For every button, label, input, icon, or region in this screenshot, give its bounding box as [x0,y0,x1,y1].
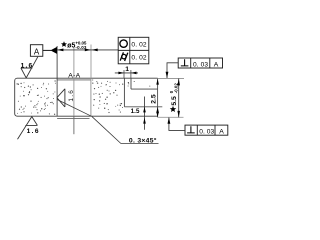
dim 1 line [115,72,138,74]
svg-text:A-A: A-A [68,73,80,80]
notch bottom edge [124,106,162,108]
svg-text:-0.03: -0.03 [75,45,86,50]
chamfer leader underline D3 [121,143,159,145]
fcf perpendicularity top right [178,58,222,68]
svg-text:1: 1 [125,66,129,73]
top edge extension to right (gray) [158,78,184,80]
fcf roundness/cylindricity frame [118,37,149,64]
roundness symbol [120,40,127,47]
svg-text:0. 3×45°: 0. 3×45° [129,136,157,144]
perpendicularity symbol [181,59,189,66]
chamfer leader D1 [57,99,91,116]
datum triangle (filled) [50,47,57,54]
hole right wall [90,78,92,116]
datum A frame [30,45,42,57]
fcf perpendicularity bottom right [185,125,228,135]
chamfer leader D2 [92,116,121,143]
part outline [15,78,158,116]
svg-text:1.5: 1.5 [131,108,140,115]
slot left wall V4 [123,78,125,107]
dim 1 extension lines [123,70,125,78]
svg-text:ø5: ø5 [67,43,75,50]
dim 1.5 line V7 [144,97,146,130]
svg-text:A: A [34,47,40,56]
dia5 dimension line [57,49,118,51]
hole top membrane line [57,79,91,81]
dim 2.5 line V6 arrows [156,79,159,85]
bottom edge extension to right (gray) [158,116,184,118]
svg-text:1.6: 1.6 [27,128,39,135]
svg-text:1.6: 1.6 [21,63,33,70]
cylindricity symbol [120,52,128,61]
fcf leader arrow [92,49,98,52]
fcf bottom right leader [169,118,185,131]
fcf top right leader [167,63,178,78]
slot right wall V5 [130,78,132,89]
svg-text:A: A [214,61,219,68]
section stipple dots [16,79,150,114]
extension line hole right (up, gray) [90,45,92,79]
svg-text:5.5: 5.5 [171,96,178,106]
centerline lower segment [73,116,75,134]
svg-text:0. 03: 0. 03 [199,129,214,136]
part right edge V6 [157,78,159,117]
dim 1 arrows [118,72,124,75]
roughness symbol top left [21,57,38,78]
roughness symbol bottom left [18,117,38,140]
svg-text:A: A [219,129,224,136]
svg-text:0. 02: 0. 02 [131,55,147,62]
dia5 left arrow [57,49,63,52]
datum leader [43,49,51,51]
dim 5.5 line V9 [178,79,180,118]
dim 5.5 text (rotated) with star [169,83,179,112]
dia5 dimension text [61,41,87,50]
svg-text:1.6: 1.6 [68,90,75,102]
hole bottom membrane line [57,118,89,120]
extension line hole left (up) [56,46,58,78]
svg-text:0. 03: 0. 03 [193,61,208,68]
svg-text:0. 02: 0. 02 [131,41,147,48]
notch top edge [131,88,158,90]
svg-text:-0.02: -0.02 [174,83,179,94]
svg-text:2.5: 2.5 [150,94,157,104]
dia5 right arrow [85,49,91,52]
hole left wall [56,78,58,116]
centerline of hole [73,47,75,116]
roughness symbol mid (rotated, on hole wall) [57,89,65,107]
